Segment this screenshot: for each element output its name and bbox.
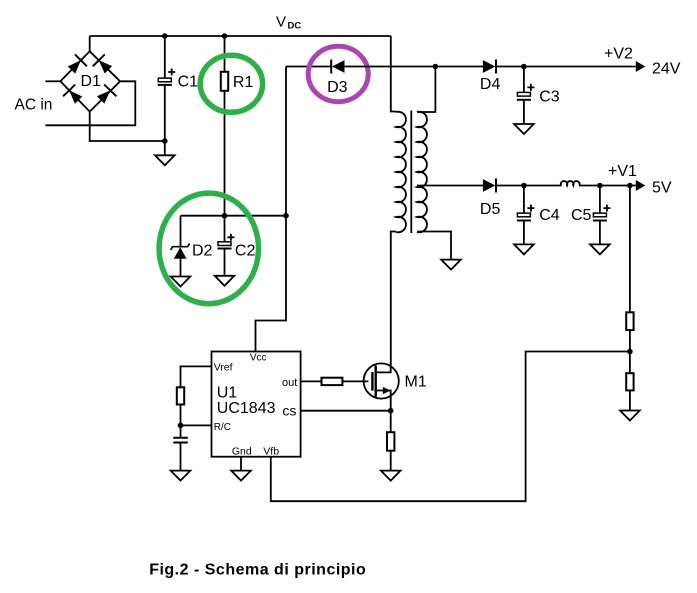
bridge rectifier D1 — [60, 51, 120, 111]
svg-text:C5: C5 — [571, 207, 592, 224]
wire feedback to Vfb — [271, 352, 630, 502]
ground under C1 — [155, 155, 175, 165]
ground under feedback divider — [620, 411, 640, 421]
node C5 — [597, 183, 603, 189]
wire source down — [390, 398, 392, 432]
wire bridge top lead — [89, 36, 91, 51]
node R/C junction — [178, 423, 184, 429]
svg-text:out: out — [282, 377, 297, 389]
svg-text:D2: D2 — [192, 243, 213, 260]
wire out pin to gate resistor — [301, 380, 322, 382]
wire Gnd pin — [240, 457, 242, 471]
wire feedback bottom — [629, 390, 631, 410]
wire C5 top — [599, 186, 601, 214]
wire feedback top — [629, 186, 631, 313]
node C1 ground — [162, 138, 168, 144]
svg-text:+V2: +V2 — [604, 46, 633, 63]
wire Vref pin — [181, 366, 212, 387]
wire C3 bottom — [523, 100, 525, 124]
wire gate resistor to gate — [342, 380, 368, 382]
wire aux to Vcc — [256, 216, 287, 352]
inductor L1 — [561, 181, 580, 185]
node secondary top D4 — [433, 64, 439, 70]
wire Crc bottom — [180, 443, 182, 471]
wire bridge bottom to C1 ground node — [90, 112, 165, 141]
wire C1 top — [164, 36, 166, 78]
node C4 — [521, 183, 527, 189]
svg-text:C2: C2 — [235, 243, 256, 260]
wire D3 row left — [286, 66, 331, 68]
wire secondary top — [417, 67, 435, 113]
svg-text:Vref: Vref — [214, 361, 233, 373]
transistor M1 — [364, 363, 399, 400]
wire D2 bottom — [180, 259, 182, 277]
svg-text:V: V — [276, 14, 286, 31]
wire cs pin — [301, 410, 391, 412]
capacitor C4 — [517, 205, 535, 221]
svg-text:Vfb: Vfb — [263, 446, 279, 458]
resistor Rfb2 — [626, 373, 633, 390]
svg-text:M1: M1 — [405, 374, 427, 391]
capacitor C3 — [517, 84, 535, 100]
svg-text:C1: C1 — [178, 74, 199, 91]
node C3 — [521, 64, 527, 70]
zener diode D2 — [171, 244, 190, 259]
svg-text:cs: cs — [282, 403, 296, 419]
wire Rref bottom — [180, 405, 182, 438]
svg-text:C4: C4 — [539, 207, 560, 224]
resistor Rsense — [387, 432, 394, 451]
resistor R1 — [221, 72, 228, 91]
svg-text:Fig.2 - Schema di principio: Fig.2 - Schema di principio — [149, 562, 366, 579]
wire primary top — [391, 36, 396, 112]
wire secondary tap to D5 — [417, 185, 483, 187]
svg-text:D1: D1 — [81, 73, 102, 90]
ground under C5 — [590, 244, 610, 254]
capacitor Crc — [173, 438, 188, 443]
capacitor C1 — [158, 69, 175, 85]
svg-text:R1: R1 — [233, 74, 254, 91]
arrow V1 output — [636, 180, 646, 191]
wire primary bottom to drain — [391, 232, 396, 364]
resistor Rfb1 — [626, 312, 633, 330]
highlight purple circle around D3 — [308, 46, 368, 101]
transformer T1 secondary winding — [417, 112, 427, 233]
svg-text:D5: D5 — [480, 201, 501, 218]
svg-text:D3: D3 — [327, 79, 348, 96]
diode D5 — [483, 179, 496, 193]
wire sense resistor bottom — [390, 451, 392, 471]
ground under D2 — [171, 277, 191, 287]
wire aux node row — [181, 215, 287, 217]
ground under C3 — [514, 124, 534, 134]
IC U1 UC1843 PWM controller box — [212, 352, 301, 457]
svg-text:AC in: AC in — [15, 96, 53, 113]
svg-text:Gnd: Gnd — [232, 446, 252, 458]
resistor Rgate — [322, 378, 343, 385]
highlight green ellipse around D2 C2 — [159, 193, 258, 304]
wire C2 top — [224, 216, 226, 242]
wire D2 top — [180, 216, 182, 247]
svg-text:UC1843: UC1843 — [217, 400, 276, 417]
wire secondary bottom — [417, 232, 451, 260]
ground under sense resistor — [381, 471, 401, 481]
wire C2 bottom — [224, 249, 226, 276]
capacitor C5 — [593, 205, 611, 221]
ground under Crc — [171, 471, 191, 481]
wire AC left stub — [45, 80, 60, 82]
node top rail C1 — [162, 33, 168, 39]
wire D3 row right — [345, 66, 484, 68]
wire C5 bottom — [599, 221, 601, 245]
resistor Rref — [177, 387, 184, 404]
svg-text:D4: D4 — [480, 76, 501, 93]
wire C4 top — [523, 186, 525, 214]
wire inductor to V1 arrow — [579, 185, 636, 187]
transformer T1 core — [410, 111, 412, 234]
svg-text:24V: 24V — [652, 61, 681, 78]
wire AC right hook — [45, 81, 135, 125]
diode D4 — [483, 60, 496, 74]
ground under C4 — [514, 244, 534, 254]
svg-text:Vcc: Vcc — [250, 352, 267, 363]
svg-text:+V1: +V1 — [608, 163, 637, 180]
transformer T1 primary winding — [396, 112, 406, 233]
ground under Gnd pin — [231, 471, 251, 481]
ground under C2 — [215, 276, 235, 286]
arrow V2 output — [636, 61, 646, 72]
wire C3 top — [523, 67, 525, 93]
wire D4 to V2 arrow — [496, 66, 636, 68]
node feedback tap — [627, 183, 633, 189]
node aux row C2 — [222, 213, 228, 219]
wire C1 bottom — [164, 85, 166, 155]
svg-text:5V: 5V — [652, 179, 672, 196]
svg-text:C3: C3 — [539, 89, 560, 106]
capacitor C2 — [218, 234, 235, 249]
wire R/C pin — [181, 424, 212, 426]
svg-text:DC: DC — [288, 21, 302, 32]
diode D3 — [331, 60, 344, 74]
node top rail R1 — [222, 33, 228, 39]
ground transformer secondary — [441, 260, 461, 270]
label VDC — [276, 14, 301, 32]
svg-text:R/C: R/C — [214, 422, 231, 433]
wire between feedback resistors — [629, 330, 631, 373]
wire top rail VDC — [90, 35, 391, 37]
wire D3 cathode branch down — [285, 67, 287, 216]
wire C4 bottom — [523, 221, 525, 245]
node aux row D3 branch — [283, 213, 289, 219]
node source sense — [388, 408, 394, 414]
wire R1 top — [224, 36, 226, 72]
node feedback divider — [627, 349, 633, 355]
highlight green circle around R1 — [200, 55, 262, 112]
wire R1 bottom — [224, 91, 226, 216]
wire D5 to inductor — [496, 185, 562, 187]
